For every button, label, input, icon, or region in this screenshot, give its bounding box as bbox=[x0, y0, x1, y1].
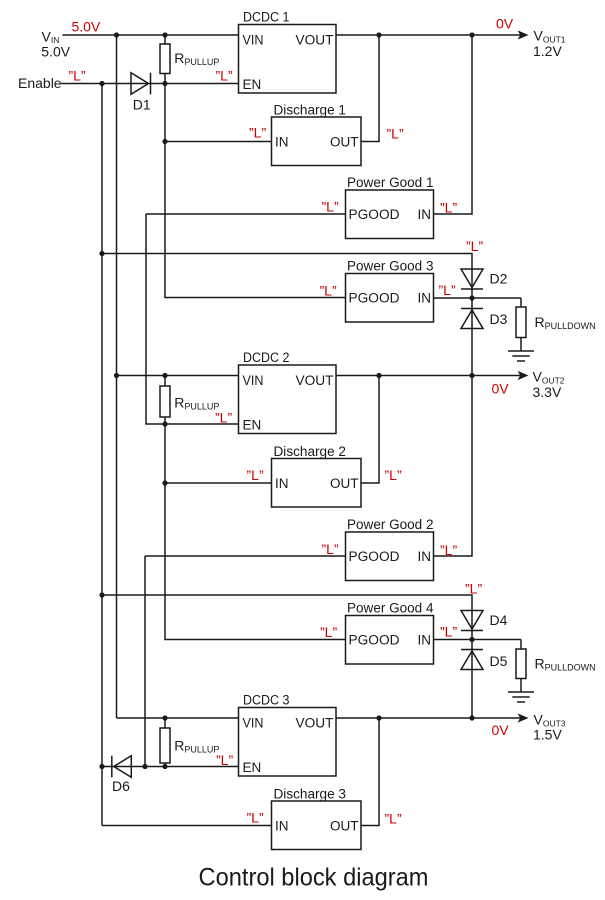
svg-text:VOUT1: VOUT1 bbox=[534, 28, 566, 45]
svg-text:”L”: ”L” bbox=[440, 624, 457, 640]
svg-text:”L”: ”L” bbox=[387, 126, 404, 142]
svg-text:VOUT2: VOUT2 bbox=[533, 369, 565, 386]
svg-text:VOUT: VOUT bbox=[296, 33, 334, 48]
svg-text:D3: D3 bbox=[490, 311, 508, 327]
svg-text:”L”: ”L” bbox=[215, 410, 232, 426]
svg-text:Discharge 1: Discharge 1 bbox=[274, 103, 347, 118]
svg-text:IN: IN bbox=[418, 291, 432, 306]
svg-text:RPULLUP: RPULLUP bbox=[174, 395, 219, 412]
svg-text:VOUT: VOUT bbox=[296, 373, 334, 388]
svg-text:5.0V: 5.0V bbox=[41, 44, 70, 60]
svg-text:PGOOD: PGOOD bbox=[349, 549, 400, 564]
svg-text:Discharge 3: Discharge 3 bbox=[274, 787, 347, 802]
svg-text:1.5V: 1.5V bbox=[533, 727, 562, 743]
svg-text:Control block diagram: Control block diagram bbox=[199, 864, 429, 892]
svg-text:Power Good 1: Power Good 1 bbox=[347, 175, 434, 190]
svg-text:Discharge 2: Discharge 2 bbox=[274, 444, 347, 459]
svg-text:D5: D5 bbox=[490, 653, 508, 669]
svg-text:RPULLUP: RPULLUP bbox=[174, 50, 219, 67]
svg-text:EN: EN bbox=[243, 760, 262, 775]
svg-text:”L”: ”L” bbox=[320, 624, 337, 640]
svg-text:VIN: VIN bbox=[243, 373, 264, 388]
svg-text:0V: 0V bbox=[492, 722, 510, 738]
svg-text:5.0V: 5.0V bbox=[72, 18, 101, 34]
svg-text:RPULLDOWN: RPULLDOWN bbox=[535, 314, 596, 331]
svg-text:EN: EN bbox=[243, 418, 262, 433]
svg-text:VIN: VIN bbox=[243, 33, 264, 48]
svg-text:DCDC 2: DCDC 2 bbox=[243, 350, 290, 365]
svg-text:IN: IN bbox=[275, 476, 289, 491]
svg-text:IN: IN bbox=[418, 549, 432, 564]
svg-text:”L”: ”L” bbox=[465, 581, 482, 597]
svg-text:VOUT: VOUT bbox=[296, 716, 334, 731]
svg-text:”L”: ”L” bbox=[320, 283, 337, 299]
svg-text:”L”: ”L” bbox=[439, 282, 456, 298]
svg-text:”L”: ”L” bbox=[440, 200, 457, 216]
svg-text:VIN: VIN bbox=[243, 716, 264, 731]
svg-text:”L”: ”L” bbox=[440, 542, 457, 558]
svg-text:Power Good 2: Power Good 2 bbox=[347, 517, 434, 532]
svg-text:RPULLUP: RPULLUP bbox=[174, 738, 219, 755]
svg-text:3.3V: 3.3V bbox=[533, 384, 562, 400]
svg-text:D6: D6 bbox=[112, 778, 130, 794]
svg-text:DCDC 3: DCDC 3 bbox=[243, 693, 290, 708]
svg-text:OUT: OUT bbox=[330, 135, 359, 150]
svg-text:IN: IN bbox=[418, 207, 432, 222]
svg-text:”L”: ”L” bbox=[249, 125, 266, 141]
svg-text:”L”: ”L” bbox=[322, 199, 339, 215]
svg-text:PGOOD: PGOOD bbox=[349, 291, 400, 306]
svg-text:0V: 0V bbox=[496, 16, 514, 32]
svg-text:”L”: ”L” bbox=[385, 467, 402, 483]
svg-text:”L”: ”L” bbox=[385, 811, 402, 827]
svg-text:Power Good 4: Power Good 4 bbox=[347, 601, 434, 616]
svg-text:Enable: Enable bbox=[18, 75, 62, 91]
svg-text:RPULLDOWN: RPULLDOWN bbox=[535, 656, 596, 673]
svg-text:OUT: OUT bbox=[330, 819, 359, 834]
svg-text:EN: EN bbox=[243, 77, 262, 92]
svg-text:”L”: ”L” bbox=[69, 68, 86, 84]
svg-text:IN: IN bbox=[275, 819, 289, 834]
svg-text:”L”: ”L” bbox=[322, 541, 339, 557]
svg-text:1.2V: 1.2V bbox=[533, 43, 562, 59]
svg-text:PGOOD: PGOOD bbox=[349, 633, 400, 648]
svg-text:”L”: ”L” bbox=[216, 68, 233, 84]
svg-text:OUT: OUT bbox=[330, 476, 359, 491]
svg-text:D1: D1 bbox=[133, 96, 151, 112]
svg-text:”L”: ”L” bbox=[247, 467, 264, 483]
svg-text:IN: IN bbox=[418, 633, 432, 648]
svg-text:”L”: ”L” bbox=[466, 238, 483, 254]
svg-text:”L”: ”L” bbox=[216, 752, 233, 768]
svg-text:”L”: ”L” bbox=[247, 810, 264, 826]
svg-text:0V: 0V bbox=[492, 381, 510, 397]
svg-text:D4: D4 bbox=[490, 612, 508, 628]
svg-text:Power Good 3: Power Good 3 bbox=[347, 259, 434, 274]
svg-text:IN: IN bbox=[275, 135, 289, 150]
svg-text:D2: D2 bbox=[490, 271, 508, 287]
svg-text:DCDC 1: DCDC 1 bbox=[243, 10, 290, 25]
svg-text:PGOOD: PGOOD bbox=[349, 207, 400, 222]
